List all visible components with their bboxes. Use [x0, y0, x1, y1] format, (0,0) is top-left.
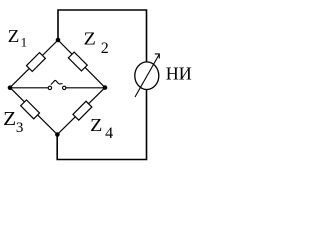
- svg-text:1: 1: [21, 35, 28, 50]
- node left junction: [8, 85, 13, 90]
- wire middle right (source terminal to right node): [66, 87, 105, 89]
- impedance Z1 (box): [26, 53, 45, 72]
- wire bottom loop: bottom node down and across to right side: [57, 90, 146, 160]
- svg-text:4: 4: [105, 125, 113, 142]
- meter arrow head: [155, 54, 160, 59]
- wire bridge arm Z4 (bottom node to right node): [57, 88, 105, 135]
- meter НИ circle: [135, 62, 159, 90]
- node bottom junction: [55, 132, 60, 137]
- source terminal right (open circle): [62, 86, 65, 89]
- impedance Z3 (box): [21, 100, 40, 119]
- source terminal left (open circle): [48, 86, 51, 89]
- svg-text:Z: Z: [84, 28, 96, 48]
- svg-text:Z: Z: [90, 115, 102, 135]
- svg-text:НИ: НИ: [166, 63, 192, 83]
- wire bridge arm Z3 (left node to bottom node): [10, 88, 57, 135]
- node top junction: [56, 38, 61, 43]
- impedance Z2 (box): [68, 52, 87, 71]
- meter arrow shaft: [135, 54, 159, 97]
- AC tilde symbol: [51, 80, 63, 84]
- svg-text:Z: Z: [3, 109, 16, 130]
- wire middle left (left node to source terminal): [10, 87, 48, 89]
- wire bridge arm Z2 (top node to right node): [58, 40, 105, 88]
- svg-text:3: 3: [16, 120, 24, 136]
- svg-text:2: 2: [101, 40, 109, 57]
- node right junction: [103, 85, 108, 90]
- svg-text:Z: Z: [8, 26, 20, 46]
- wire top loop: top node up and across to right side: [58, 10, 147, 62]
- wire bridge arm Z1 (left node to top node): [10, 40, 58, 88]
- impedance Z4 (box): [73, 101, 92, 120]
